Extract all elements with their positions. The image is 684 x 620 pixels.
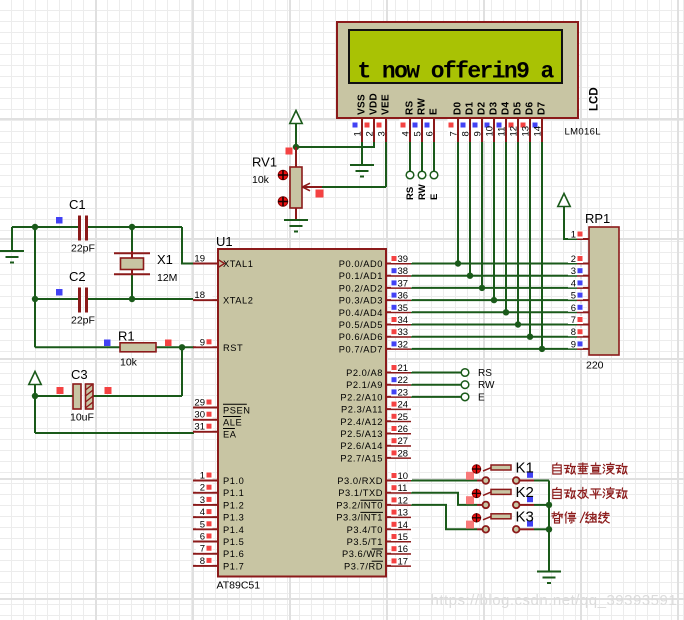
svg-text:K1: K1	[516, 460, 534, 477]
svg-text:6: 6	[571, 303, 576, 314]
svg-text:P1.7: P1.7	[223, 561, 244, 571]
svg-text:25: 25	[398, 412, 409, 423]
svg-text:VEE: VEE	[381, 94, 392, 115]
svg-text:33: 33	[398, 327, 409, 338]
svg-text:9: 9	[200, 337, 205, 348]
svg-text:U1: U1	[216, 234, 233, 249]
svg-text:XTAL1: XTAL1	[223, 259, 253, 269]
svg-text:EA: EA	[223, 430, 237, 440]
svg-text:22pF: 22pF	[71, 315, 95, 327]
svg-text:36: 36	[398, 291, 409, 302]
svg-text:RW: RW	[417, 184, 428, 200]
svg-text:D3: D3	[489, 101, 500, 115]
svg-text:7: 7	[449, 131, 460, 136]
svg-text:22pF: 22pF	[71, 243, 95, 255]
svg-text:2: 2	[365, 131, 376, 136]
svg-text:14: 14	[533, 126, 544, 137]
svg-text:39: 39	[398, 254, 409, 265]
svg-text:P2.4/A12: P2.4/A12	[340, 417, 383, 427]
svg-text:34: 34	[398, 315, 409, 326]
svg-text:D2: D2	[477, 101, 488, 115]
svg-text:1: 1	[571, 230, 576, 241]
svg-text:ALE: ALE	[223, 418, 242, 428]
svg-text:16: 16	[398, 544, 409, 555]
svg-text:RS: RS	[405, 187, 416, 200]
svg-text:E: E	[429, 108, 440, 115]
svg-text:P2.2/A10: P2.2/A10	[340, 392, 383, 402]
svg-text:K3: K3	[516, 509, 534, 526]
svg-text:21: 21	[398, 363, 409, 374]
svg-text:P0.3/AD3: P0.3/AD3	[339, 296, 383, 306]
svg-text:22: 22	[398, 375, 409, 386]
svg-text:D5: D5	[513, 101, 524, 115]
svg-text:32: 32	[398, 339, 409, 350]
svg-text:P2.5/A13: P2.5/A13	[340, 429, 383, 439]
svg-text:17: 17	[398, 556, 409, 567]
svg-text:P1.6: P1.6	[223, 549, 244, 559]
svg-text:12: 12	[509, 126, 520, 137]
svg-text:3: 3	[200, 495, 205, 506]
svg-text:P1.3: P1.3	[223, 513, 244, 523]
svg-text:D1: D1	[465, 101, 476, 115]
svg-text:P3.6/WR: P3.6/WR	[342, 549, 383, 559]
svg-text:D4: D4	[501, 101, 512, 115]
svg-text:D0: D0	[453, 101, 464, 115]
svg-text:5: 5	[200, 519, 205, 530]
svg-text:P0.2/AD2: P0.2/AD2	[339, 283, 383, 293]
svg-text:P2.6/A14: P2.6/A14	[340, 441, 383, 451]
svg-text:11: 11	[497, 127, 508, 137]
svg-text:RV1: RV1	[252, 155, 277, 170]
svg-text:X1: X1	[157, 252, 173, 267]
svg-text:9: 9	[571, 339, 576, 350]
svg-text:P0.7/AD7: P0.7/AD7	[339, 344, 383, 354]
svg-text:30: 30	[194, 410, 205, 421]
svg-text:8: 8	[200, 556, 205, 567]
svg-text:RP1: RP1	[585, 211, 610, 226]
svg-text:29: 29	[194, 398, 205, 409]
svg-text:2: 2	[571, 254, 576, 265]
svg-text:27: 27	[398, 436, 409, 447]
svg-text:10uF: 10uF	[70, 412, 94, 424]
svg-text:38: 38	[398, 266, 409, 277]
svg-text:P1.0: P1.0	[223, 476, 244, 486]
svg-text:P2.3/A11: P2.3/A11	[341, 405, 383, 415]
svg-text:P0.0/AD0: P0.0/AD0	[339, 259, 383, 269]
svg-text:P3.7/RD: P3.7/RD	[344, 561, 383, 571]
svg-text:8: 8	[461, 131, 472, 136]
svg-text:14: 14	[398, 520, 409, 531]
svg-text:P0.1/AD1: P0.1/AD1	[339, 271, 383, 281]
svg-text:VDD: VDD	[369, 93, 380, 115]
svg-text:E: E	[478, 392, 485, 403]
svg-text:26: 26	[398, 424, 409, 435]
svg-text:P2.7/A15: P2.7/A15	[340, 453, 383, 463]
svg-text:4: 4	[200, 507, 205, 518]
svg-text:23: 23	[398, 387, 409, 398]
svg-text:5: 5	[571, 291, 576, 302]
svg-text:13: 13	[521, 126, 532, 137]
svg-text:P1.2: P1.2	[223, 500, 244, 510]
svg-text:LM016L: LM016L	[565, 127, 601, 138]
svg-text:12M: 12M	[157, 272, 177, 284]
svg-text:6: 6	[425, 131, 436, 136]
svg-text:R1: R1	[118, 329, 135, 344]
svg-text:C1: C1	[69, 197, 86, 212]
svg-text:E: E	[429, 194, 440, 200]
svg-text:9: 9	[473, 131, 484, 136]
svg-text:10k: 10k	[120, 357, 138, 369]
svg-text:35: 35	[398, 303, 409, 314]
svg-text:37: 37	[398, 278, 409, 289]
svg-text:RS: RS	[478, 368, 492, 379]
svg-text:P3.5/T1: P3.5/T1	[347, 537, 383, 547]
svg-text:AT89C51: AT89C51	[217, 580, 261, 592]
svg-text:4: 4	[571, 278, 576, 289]
svg-text:4: 4	[401, 131, 412, 136]
svg-text:C2: C2	[69, 269, 86, 284]
svg-text:P1.4: P1.4	[223, 525, 244, 535]
svg-text:P1.1: P1.1	[223, 488, 244, 498]
svg-text:P0.4/AD4: P0.4/AD4	[339, 308, 383, 318]
svg-text:PSEN: PSEN	[223, 406, 251, 416]
svg-text:5: 5	[413, 131, 424, 136]
svg-text:P1.5: P1.5	[223, 537, 244, 547]
svg-text:31: 31	[194, 422, 205, 433]
svg-text:RW: RW	[417, 98, 428, 115]
svg-text:2: 2	[200, 483, 205, 494]
svg-text:8: 8	[571, 327, 576, 338]
svg-text:VSS: VSS	[357, 94, 368, 115]
svg-text:18: 18	[194, 290, 205, 301]
svg-text:RS: RS	[405, 100, 416, 115]
svg-text:P3.0/RXD: P3.0/RXD	[337, 476, 383, 486]
svg-text:10: 10	[398, 471, 409, 482]
svg-text:220: 220	[586, 360, 604, 372]
svg-text:10: 10	[485, 126, 496, 137]
svg-text:13: 13	[398, 508, 409, 519]
svg-text:P0.6/AD6: P0.6/AD6	[339, 332, 383, 342]
svg-text:12: 12	[398, 495, 409, 506]
svg-text:D7: D7	[537, 101, 548, 115]
svg-text:RST: RST	[223, 343, 243, 353]
svg-text:7: 7	[200, 544, 205, 555]
svg-text:https://blog.csdn.net/qq_39393: https://blog.csdn.net/qq_39393591	[431, 592, 678, 609]
svg-text:1: 1	[353, 131, 364, 136]
svg-text:10k: 10k	[252, 174, 270, 186]
svg-text:3: 3	[571, 266, 576, 277]
svg-text:11: 11	[398, 483, 408, 494]
svg-text:LCD: LCD	[589, 87, 601, 111]
svg-text:RW: RW	[478, 380, 495, 391]
svg-text:P2.0/A8: P2.0/A8	[346, 368, 383, 378]
svg-text:P0.5/AD5: P0.5/AD5	[339, 320, 383, 330]
svg-text:P3.2/INT0: P3.2/INT0	[336, 500, 383, 510]
svg-text:7: 7	[571, 315, 576, 326]
svg-text:15: 15	[398, 532, 409, 543]
svg-text:C3: C3	[71, 367, 88, 382]
svg-text:3: 3	[377, 131, 388, 136]
svg-text:P3.4/T0: P3.4/T0	[347, 525, 383, 535]
svg-text:P3.3/INT1: P3.3/INT1	[336, 513, 383, 523]
svg-text:P3.1/TXD: P3.1/TXD	[338, 488, 383, 498]
svg-text:XTAL2: XTAL2	[223, 296, 253, 306]
svg-text:t now offerin9 a: t now offerin9 a	[358, 59, 555, 85]
svg-text:19: 19	[194, 254, 205, 265]
svg-text:24: 24	[398, 400, 409, 411]
svg-text:P2.1/A9: P2.1/A9	[346, 380, 383, 390]
svg-text:D6: D6	[525, 101, 536, 115]
svg-text:1: 1	[200, 471, 205, 482]
svg-text:K2: K2	[516, 484, 534, 501]
svg-text:28: 28	[398, 448, 409, 459]
svg-text:6: 6	[200, 532, 205, 543]
